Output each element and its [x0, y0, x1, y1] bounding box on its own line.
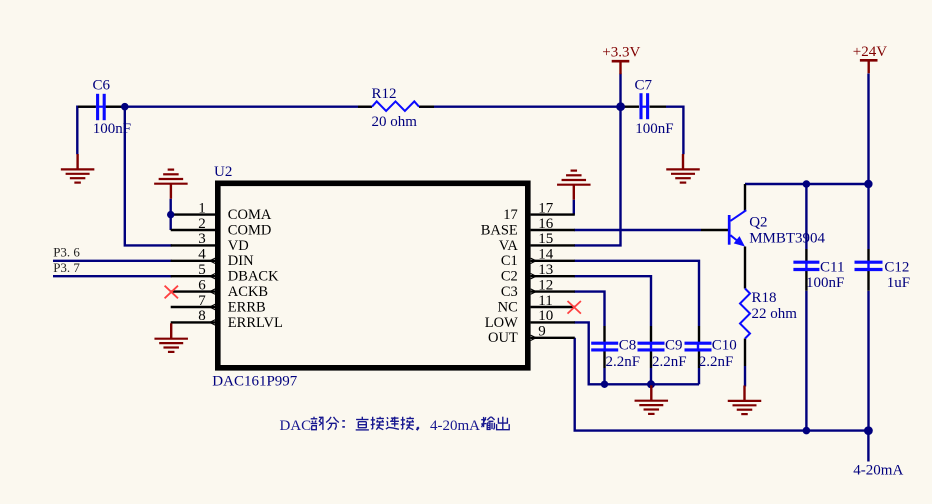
svg-text:100nF: 100nF — [635, 121, 673, 137]
svg-text:C11: C11 — [820, 260, 844, 276]
svg-text:7: 7 — [198, 293, 206, 309]
svg-text:20 ohm: 20 ohm — [372, 114, 418, 130]
svg-text:C9: C9 — [665, 337, 683, 353]
svg-text:C8: C8 — [619, 337, 637, 353]
svg-text:17: 17 — [538, 200, 554, 216]
svg-text:17: 17 — [503, 207, 518, 223]
svg-text:U2: U2 — [214, 164, 232, 180]
svg-text:COMA: COMA — [228, 207, 272, 223]
svg-text:10: 10 — [538, 308, 553, 324]
svg-text:15: 15 — [538, 231, 553, 247]
svg-text:NC: NC — [498, 299, 518, 315]
svg-text:4: 4 — [198, 247, 206, 263]
svg-text:9: 9 — [538, 324, 546, 340]
svg-text:DBACK: DBACK — [228, 269, 279, 285]
svg-text:C7: C7 — [635, 78, 653, 94]
svg-text:12: 12 — [538, 277, 553, 293]
svg-text:ERRB: ERRB — [228, 299, 266, 315]
svg-text:VA: VA — [499, 238, 519, 254]
svg-text:ACKB: ACKB — [228, 284, 268, 300]
svg-text:P3. 6: P3. 6 — [53, 244, 80, 259]
svg-text:11: 11 — [538, 293, 552, 309]
svg-text:4-20mA: 4-20mA — [430, 418, 480, 434]
svg-text:DAC161P997: DAC161P997 — [212, 373, 298, 389]
svg-text:1uF: 1uF — [887, 275, 910, 291]
svg-text:R12: R12 — [372, 86, 397, 102]
svg-text:3: 3 — [198, 231, 206, 247]
svg-text:Q2: Q2 — [749, 215, 767, 231]
svg-text:DAC: DAC — [280, 418, 312, 434]
svg-text:C3: C3 — [501, 284, 518, 300]
svg-text:4-20mA: 4-20mA — [853, 463, 903, 479]
svg-text:6: 6 — [198, 277, 206, 293]
svg-text:100nF: 100nF — [806, 275, 844, 291]
svg-text:ERRLVL: ERRLVL — [228, 315, 283, 331]
svg-text:C1: C1 — [501, 253, 518, 269]
svg-text:22 ohm: 22 ohm — [752, 306, 798, 322]
svg-text:5: 5 — [198, 262, 206, 278]
svg-text:COMD: COMD — [228, 222, 272, 238]
svg-text:LOW: LOW — [485, 315, 518, 331]
svg-text:2.2nF: 2.2nF — [699, 354, 734, 370]
svg-text:16: 16 — [538, 216, 554, 232]
svg-text:14: 14 — [538, 247, 554, 263]
svg-text:+24V: +24V — [853, 44, 887, 60]
svg-text:C10: C10 — [712, 337, 737, 353]
svg-text:+3.3V: +3.3V — [602, 45, 640, 61]
svg-text:R18: R18 — [752, 290, 777, 306]
svg-text:C12: C12 — [884, 260, 909, 276]
svg-text:2.2nF: 2.2nF — [652, 354, 687, 370]
svg-text:DIN: DIN — [228, 253, 254, 269]
svg-text:P3. 7: P3. 7 — [53, 260, 80, 275]
svg-text:OUT: OUT — [488, 330, 518, 346]
svg-text:13: 13 — [538, 262, 553, 278]
svg-text:VD: VD — [228, 238, 249, 254]
svg-text:C6: C6 — [93, 77, 111, 93]
svg-text:100nF: 100nF — [93, 121, 131, 137]
svg-text:8: 8 — [198, 308, 206, 324]
svg-text:BASE: BASE — [481, 222, 518, 238]
svg-text:MMBT3904: MMBT3904 — [749, 231, 825, 247]
svg-text:2: 2 — [198, 216, 206, 232]
svg-text:C2: C2 — [501, 269, 518, 285]
svg-text:2.2nF: 2.2nF — [606, 354, 641, 370]
svg-text:1: 1 — [198, 200, 206, 216]
